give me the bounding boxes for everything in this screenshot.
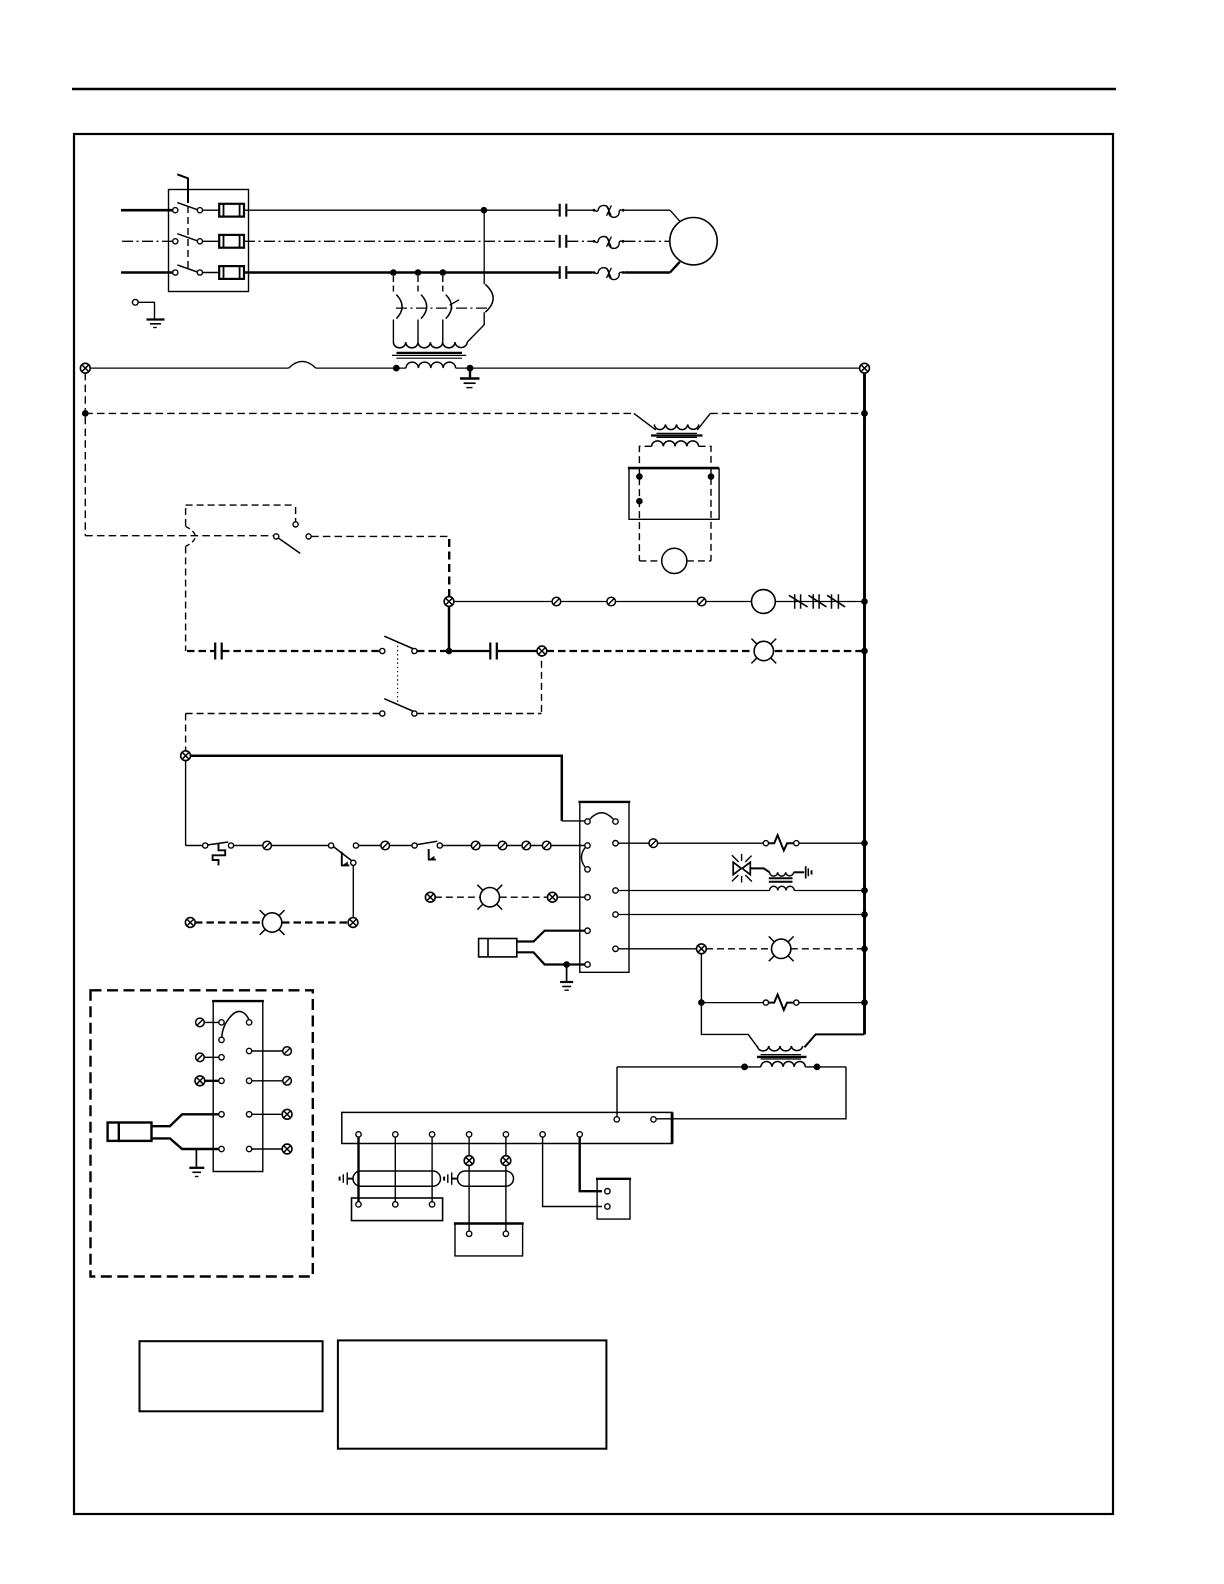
page header rule	[72, 88, 1116, 90]
T1 secondary ground	[469, 368, 471, 377]
node L1-a	[481, 207, 488, 214]
connector pin D3	[471, 841, 480, 850]
contactor blade arc 3	[446, 295, 452, 319]
connector pin D6	[542, 841, 551, 850]
gauge G1	[752, 590, 776, 614]
connector pin A1	[552, 597, 561, 606]
node L3-b	[415, 269, 422, 276]
S4 actuator flag	[342, 852, 350, 866]
QS1 pole 2	[173, 239, 178, 244]
rectifier loop (dashed)	[639, 446, 711, 561]
connector pin J1-L3	[196, 1053, 205, 1062]
node L3-c	[440, 269, 447, 276]
cam switch S4	[329, 843, 334, 848]
igniter coil T4 primary	[750, 868, 769, 872]
row 843 wire	[618, 842, 864, 844]
contactor blade arc 1	[396, 295, 402, 319]
control bus wire	[90, 367, 860, 369]
J1 left pins	[219, 1020, 224, 1025]
P2 ground	[566, 965, 568, 982]
connector pin D5	[522, 841, 531, 850]
terminal strip TB1	[342, 1112, 672, 1143]
terminal X J1-R5	[282, 1144, 292, 1154]
terminal X row F left	[425, 892, 435, 902]
node resistor row right	[861, 999, 868, 1006]
rectifier terminal c	[636, 498, 643, 505]
row 948 wire	[618, 948, 697, 950]
thick link X to row B	[448, 606, 451, 651]
node T1 sec right	[467, 365, 474, 372]
row F dashed	[435, 896, 548, 898]
bar1 chassis ground	[347, 1178, 353, 1180]
heater element	[795, 594, 839, 608]
crank bus thick	[190, 756, 562, 821]
plug P2	[479, 939, 517, 957]
igniter chassis ground	[805, 866, 807, 878]
disconnect handle	[177, 174, 188, 203]
resistor row wire	[701, 1002, 864, 1004]
contactor blade arc 2	[421, 295, 427, 319]
bar2 chassis ground	[452, 1178, 458, 1180]
phase line L2 (dash-dot)	[122, 240, 173, 242]
capacitor C3	[560, 266, 567, 279]
row 914 wire	[618, 914, 864, 916]
lamp H4	[769, 936, 794, 961]
remote control dashed enclosure	[91, 990, 313, 1276]
terminal X row 948	[697, 944, 707, 954]
terminal X TB1-5	[501, 1156, 511, 1166]
resistor R2	[763, 1000, 768, 1005]
phase line L3	[121, 271, 173, 274]
socket block J1	[212, 1000, 264, 1002]
wires contactor to T1 primary	[393, 320, 442, 343]
ground	[147, 318, 165, 320]
limit switch S3	[203, 843, 208, 848]
K1 right pins	[613, 819, 618, 824]
rectifier terminal b	[708, 473, 715, 480]
row A wire	[454, 601, 865, 603]
terminal X crank bus	[181, 751, 191, 761]
wire crossover hop	[289, 361, 316, 368]
fuse F2	[219, 235, 244, 248]
earth terminal at disconnect	[132, 299, 138, 305]
node L3-a	[390, 269, 397, 276]
terminal X row B	[537, 646, 547, 656]
terminal X row F right	[548, 892, 558, 902]
phase line L1	[121, 209, 173, 212]
drop 948 to resistor row	[701, 953, 757, 1047]
node resistor row left	[698, 999, 705, 1006]
row B dashed to node	[417, 650, 446, 652]
terminal X row E left	[185, 918, 195, 928]
wire arc4 to T1 primary	[467, 312, 484, 342]
glow plug feed thick	[357, 1137, 359, 1202]
row B dashed left	[187, 650, 380, 652]
T2 primary winding	[654, 424, 698, 429]
switch S2b	[380, 711, 385, 716]
relay block K1	[578, 801, 630, 803]
contactor linkage (dash-dot)	[396, 307, 489, 309]
K1 jumper arc left	[581, 848, 585, 868]
junction box B2	[454, 1222, 524, 1224]
K1 jumper arc top	[590, 813, 614, 819]
disconnect switch QS1 box	[169, 190, 249, 292]
node T1 sec left	[393, 365, 400, 372]
S4 throw drop	[352, 865, 354, 918]
selector vertical (dashed)	[185, 508, 187, 751]
T4 secondary	[770, 886, 795, 890]
S5 actuator flag	[429, 849, 436, 860]
row B solid to cap	[449, 650, 537, 652]
connector pin J1-R3	[283, 1077, 292, 1086]
row C dashed	[186, 656, 542, 714]
glow plug feeds	[395, 1137, 432, 1202]
T1 secondary winding	[406, 362, 456, 368]
S3 actuator staircase	[213, 844, 226, 866]
wire TB1-7 to box3 thick	[580, 1137, 602, 1191]
capacitor C2	[560, 235, 567, 248]
node row B bus	[861, 648, 868, 655]
QS1 pole 1	[173, 208, 178, 213]
terminal X row A	[444, 597, 454, 607]
capacitor C5	[490, 643, 497, 660]
connector pin J1-R2	[283, 1047, 292, 1056]
selector top link (dashed)	[186, 505, 296, 522]
junction box B1	[352, 1198, 443, 1221]
S2 coupling (dotted)	[397, 642, 399, 705]
terminal X TB1-4	[464, 1156, 474, 1166]
disconnect linkage (dashed)	[187, 206, 189, 271]
QS1 pole 3	[173, 270, 178, 275]
row F to relay	[557, 896, 585, 898]
node row A bus	[861, 598, 868, 605]
junction box B3	[596, 1178, 631, 1180]
terminal X2 right	[860, 363, 870, 373]
T2 secondary winding	[652, 441, 699, 446]
node row 914	[861, 911, 868, 918]
node T3 sec left	[741, 1064, 748, 1071]
terminal X row E right	[348, 918, 358, 928]
fuse F3	[219, 266, 244, 279]
P2 wires	[517, 931, 585, 942]
T3 secondary wires	[617, 1067, 846, 1119]
terminal X J1-R4	[282, 1109, 292, 1119]
J1 right pins	[246, 1020, 251, 1025]
left dashed drop	[84, 373, 86, 536]
fuse F1	[219, 204, 244, 217]
node T3 sec right	[814, 1064, 821, 1071]
lamp H3	[477, 885, 502, 910]
row D wire	[186, 845, 585, 847]
spark gap igniter	[733, 862, 741, 874]
row 890 wire	[618, 890, 864, 892]
resistor R1	[763, 841, 768, 846]
J1 left leads	[204, 1022, 219, 1057]
heavy dashed drop	[448, 539, 450, 597]
T2 core	[657, 432, 698, 434]
terminal X1 left	[80, 363, 90, 373]
connector pin J1-L1	[196, 1018, 205, 1027]
thermal protector L1	[593, 205, 625, 217]
connector pin A2	[607, 597, 616, 606]
TB1 pins lower row	[356, 1132, 361, 1137]
P1 ground	[195, 1149, 197, 1167]
legend box 2	[338, 1340, 607, 1448]
T1 core	[397, 352, 463, 354]
rectifier terminal a	[636, 473, 643, 480]
wire L1 node to arc 4	[483, 210, 485, 284]
connector pin D1	[263, 841, 272, 850]
thermal protector L2	[593, 236, 625, 248]
TB1 pins upper row	[614, 1117, 619, 1122]
T4 core	[769, 877, 793, 879]
legend box 1	[140, 1341, 323, 1411]
connector pin 843	[649, 839, 658, 848]
J1 S-jumper	[222, 1011, 249, 1037]
lamp H2	[260, 910, 285, 935]
node row 948	[861, 946, 868, 953]
wire TB1-6 to box3	[543, 1137, 602, 1206]
changeover blade arc 4	[485, 284, 493, 312]
node feed right	[861, 410, 868, 417]
T1 primary winding	[393, 342, 467, 348]
terminal X J1-L4	[195, 1076, 205, 1086]
contactor drops to T1 (dashed)	[393, 276, 442, 294]
selector switch S1	[293, 522, 298, 527]
vertical hop over row	[186, 526, 196, 546]
motor M1	[670, 218, 717, 265]
entry to relay K pin1	[562, 820, 585, 822]
switch S2a	[380, 648, 385, 653]
node P2 ground	[563, 961, 570, 968]
thermal protector L3	[593, 268, 625, 280]
rectifier box	[628, 467, 719, 470]
node feed left	[82, 410, 89, 417]
row to selector switch (dashed)	[85, 535, 273, 537]
drop to row D	[185, 760, 187, 845]
row B dashed right	[547, 650, 865, 652]
P1 wires	[152, 1114, 219, 1126]
row E dashed	[195, 921, 349, 923]
row 948 dashed	[706, 948, 865, 950]
capacitor C1	[560, 204, 567, 217]
plug P1	[108, 1123, 152, 1141]
lamp H1	[751, 639, 776, 664]
connector pin D4	[498, 841, 507, 850]
node row 843	[861, 840, 868, 847]
control feed (dashed)	[85, 412, 864, 414]
connector pin A3	[697, 597, 706, 606]
right bus (vertical)	[863, 373, 866, 1035]
output transformer T3 primary	[757, 1046, 802, 1051]
blade 3 lever	[450, 300, 459, 305]
T2 primary leads	[634, 413, 711, 430]
cam switch S5	[412, 843, 417, 848]
S1 to drop (dashed)	[311, 535, 449, 537]
T3 secondary	[761, 1062, 805, 1067]
node row B	[446, 648, 453, 655]
K1 left pins	[585, 819, 590, 824]
connector pin D2	[381, 841, 390, 850]
node row 890	[861, 887, 868, 894]
T3 core	[761, 1054, 801, 1056]
glow plug bar 2	[458, 1171, 514, 1186]
schematic border frame	[74, 134, 1113, 1514]
J1 right leads	[252, 1051, 283, 1149]
glow plug bar 1	[353, 1171, 441, 1186]
capacitor C4	[215, 643, 222, 660]
meter M	[662, 548, 687, 573]
feeds through X terminals	[469, 1137, 506, 1231]
